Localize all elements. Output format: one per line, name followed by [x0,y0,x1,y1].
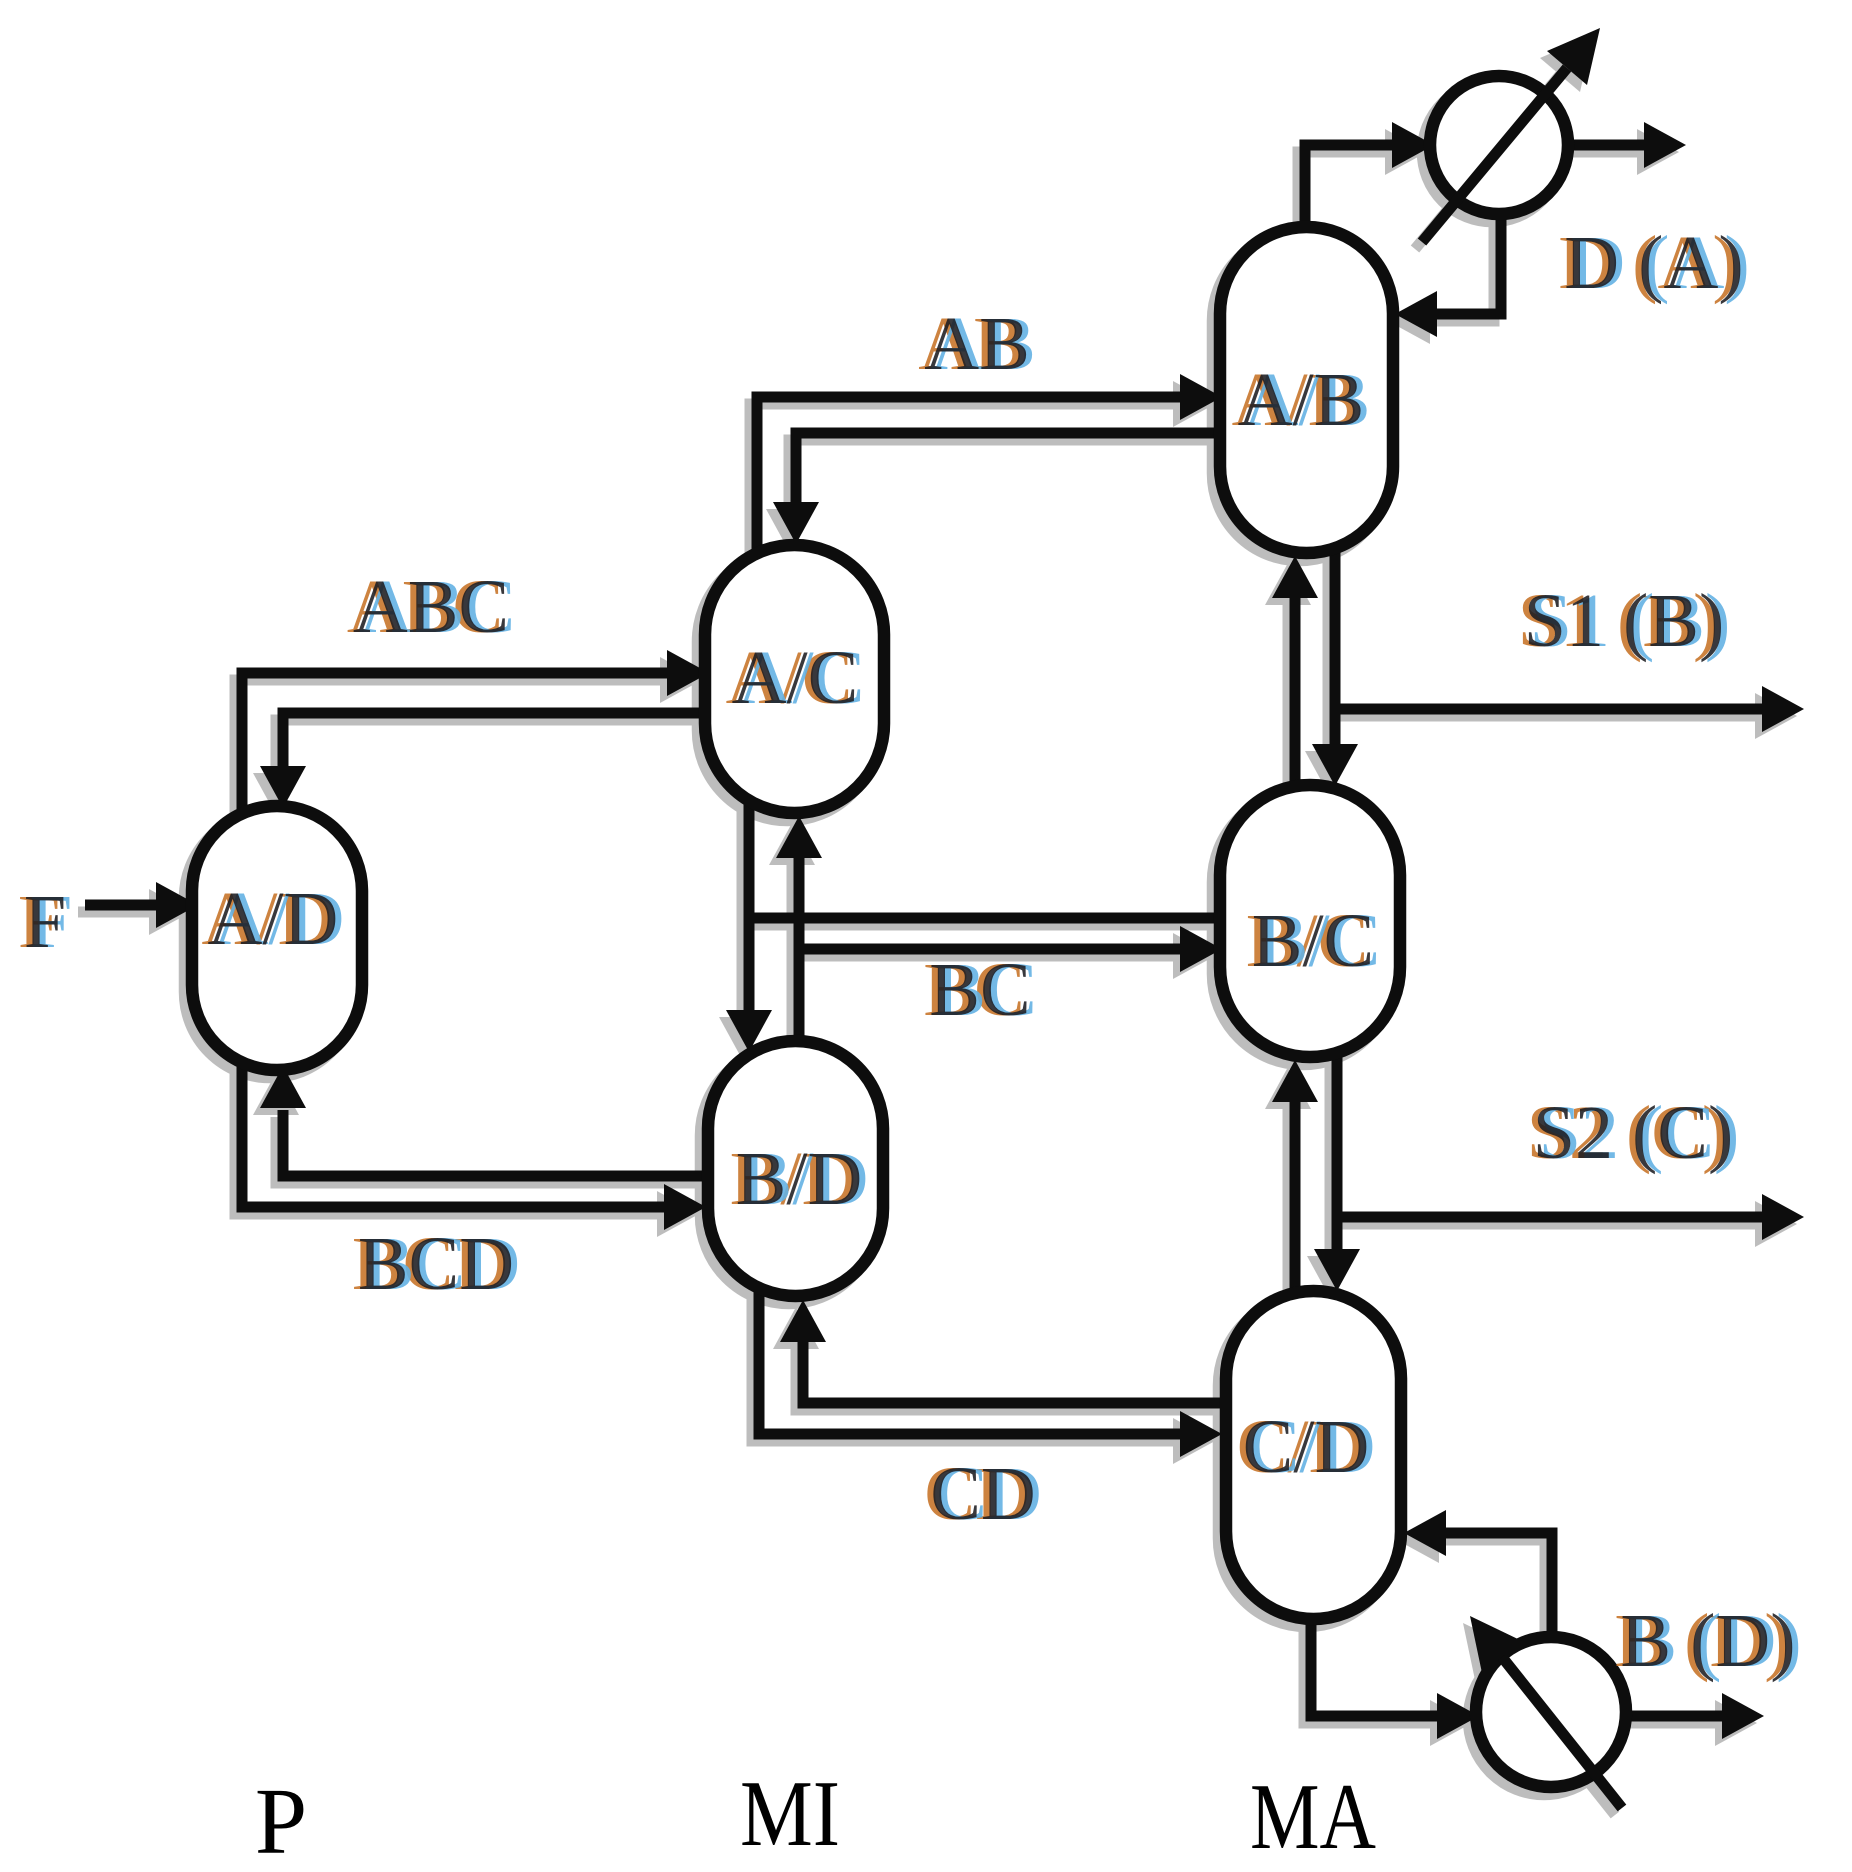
wire F feed [85,900,160,911]
wire B/C top up to A/B bottom [1290,598,1301,788]
arrow condenser diagonal tip [1547,28,1600,85]
arrow BCD into B/D [664,1184,706,1230]
wire B/D top up to A/C bottom [794,858,805,1043]
arrow down into A/D top [260,766,306,808]
wire S1 product [1335,704,1762,715]
arrow into reboiler [1437,1693,1479,1739]
wire return B/C to junction [749,913,1222,924]
wire B/C bottom down to C/D top [1332,1055,1343,1249]
wire S2 product [1337,1212,1762,1223]
wire A/C bottom down to B/D top [744,804,755,1010]
condenser diagonal [1422,68,1567,242]
wire return B/D to A/D bottom [283,1110,710,1176]
arrow reflux into A/B right [1395,291,1437,337]
wire return A/B to A/C top [796,433,1222,502]
wire C/D top up to B/C bottom [1290,1102,1301,1293]
condenser circle [1430,76,1568,214]
wire return C/D to B/D bottom [803,1342,1228,1403]
arrow reboiler diagonal tip [1470,1616,1522,1673]
wire condenser reflux to A/B [1437,212,1501,314]
arrow reboiler outlet [1722,1693,1764,1739]
svg-text:P: P [255,1770,307,1872]
arrow down into B/D top [726,1010,772,1052]
arrow BC into B/C [1180,926,1222,972]
svg-text:MI: MI [740,1762,840,1866]
arrow S1 [1762,686,1804,732]
vessel B/C [1220,785,1400,1057]
wire C/D bottom to reboiler [1311,1616,1437,1716]
arrow down into C/D top [1314,1249,1360,1291]
vessel A/C [705,545,884,813]
arrow up into A/B bottom [1272,556,1318,598]
arrow CD into C/D [1180,1411,1222,1457]
reboiler diagonal [1502,1657,1622,1808]
vessel A/B [1220,227,1393,553]
wire AB forward A/C top to A/B [757,397,1180,556]
wire condenser outlet [1566,140,1644,151]
wire A/B bottom down to B/C top [1330,550,1341,744]
arrow ABC into A/C [667,650,709,696]
vessel B/D [708,1041,883,1296]
svg-text:MA: MA [1250,1765,1376,1869]
arrow up into B/D bottom [780,1300,826,1342]
wire BCD forward A/D bottom to B/D [242,1060,664,1207]
wire reboiler outlet [1625,1711,1722,1722]
arrow down into B/C top [1312,744,1358,786]
wire ABC forward A/D top to A/C [242,673,667,812]
arrow up into A/D bottom [260,1066,306,1108]
wire CD forward B/D bottom to C/D [759,1290,1180,1434]
arrow F into A/D [156,882,198,928]
arrow into C/D right side [1404,1510,1446,1556]
arrow up into B/C bottom [1272,1060,1318,1102]
wire BC forward to B/C [799,944,1180,955]
vessel A/D [192,806,362,1070]
wire A/B top to condenser [1305,145,1392,235]
arrow AB into A/B [1180,374,1222,420]
arrow condenser distillate out [1644,122,1686,168]
reboiler circle [1476,1637,1626,1787]
arrow down into A/C top [773,502,819,544]
vessel C/D [1226,1291,1401,1619]
wire C/D side draw to reboiler [1446,1533,1552,1640]
arrow S2 [1762,1194,1804,1240]
arrow into condenser [1392,122,1434,168]
wire return A/C to A/D top [283,713,707,766]
arrow up into A/C bottom [776,816,822,858]
stream + vessel labels (orange/blue ClearType fringe copies) [18,221,1790,1683]
